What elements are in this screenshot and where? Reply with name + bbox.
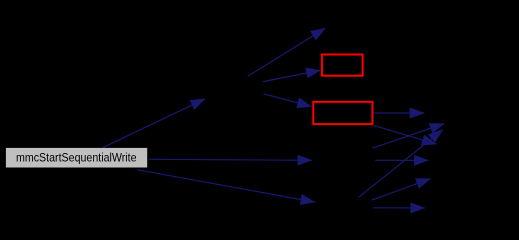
- wire: edge main->node C: [137, 170, 315, 202]
- wire: edge red box 2->node R3: [374, 125, 437, 144]
- wire: edge node A->red box 1: [263, 70, 321, 81]
- wire: edge main->node A: [103, 99, 205, 148]
- svg-text:mmcStartSequentialWrite: mmcStartSequentialWrite: [16, 151, 137, 165]
- wire: edge node A->red box 2: [264, 94, 312, 107]
- wire: edge node C->node R6: [373, 207, 425, 209]
- node mmcStartSequentialWrite (current, grey): [6, 148, 147, 168]
- wire: edge red box 2->node R1: [374, 112, 425, 114]
- wire: edge node B->node R2: [372, 124, 444, 149]
- red box 2 (truncated node): [313, 102, 372, 124]
- wire: edge main->node B: [149, 159, 312, 160]
- wire: edge node A->node T: [248, 28, 326, 76]
- red box 1 (truncated node): [322, 55, 363, 76]
- wire: edge node B->node R4: [375, 159, 428, 161]
- wire: edge node C->node R5: [372, 179, 431, 200]
- wire: edge node C->node R2: [359, 130, 443, 198]
